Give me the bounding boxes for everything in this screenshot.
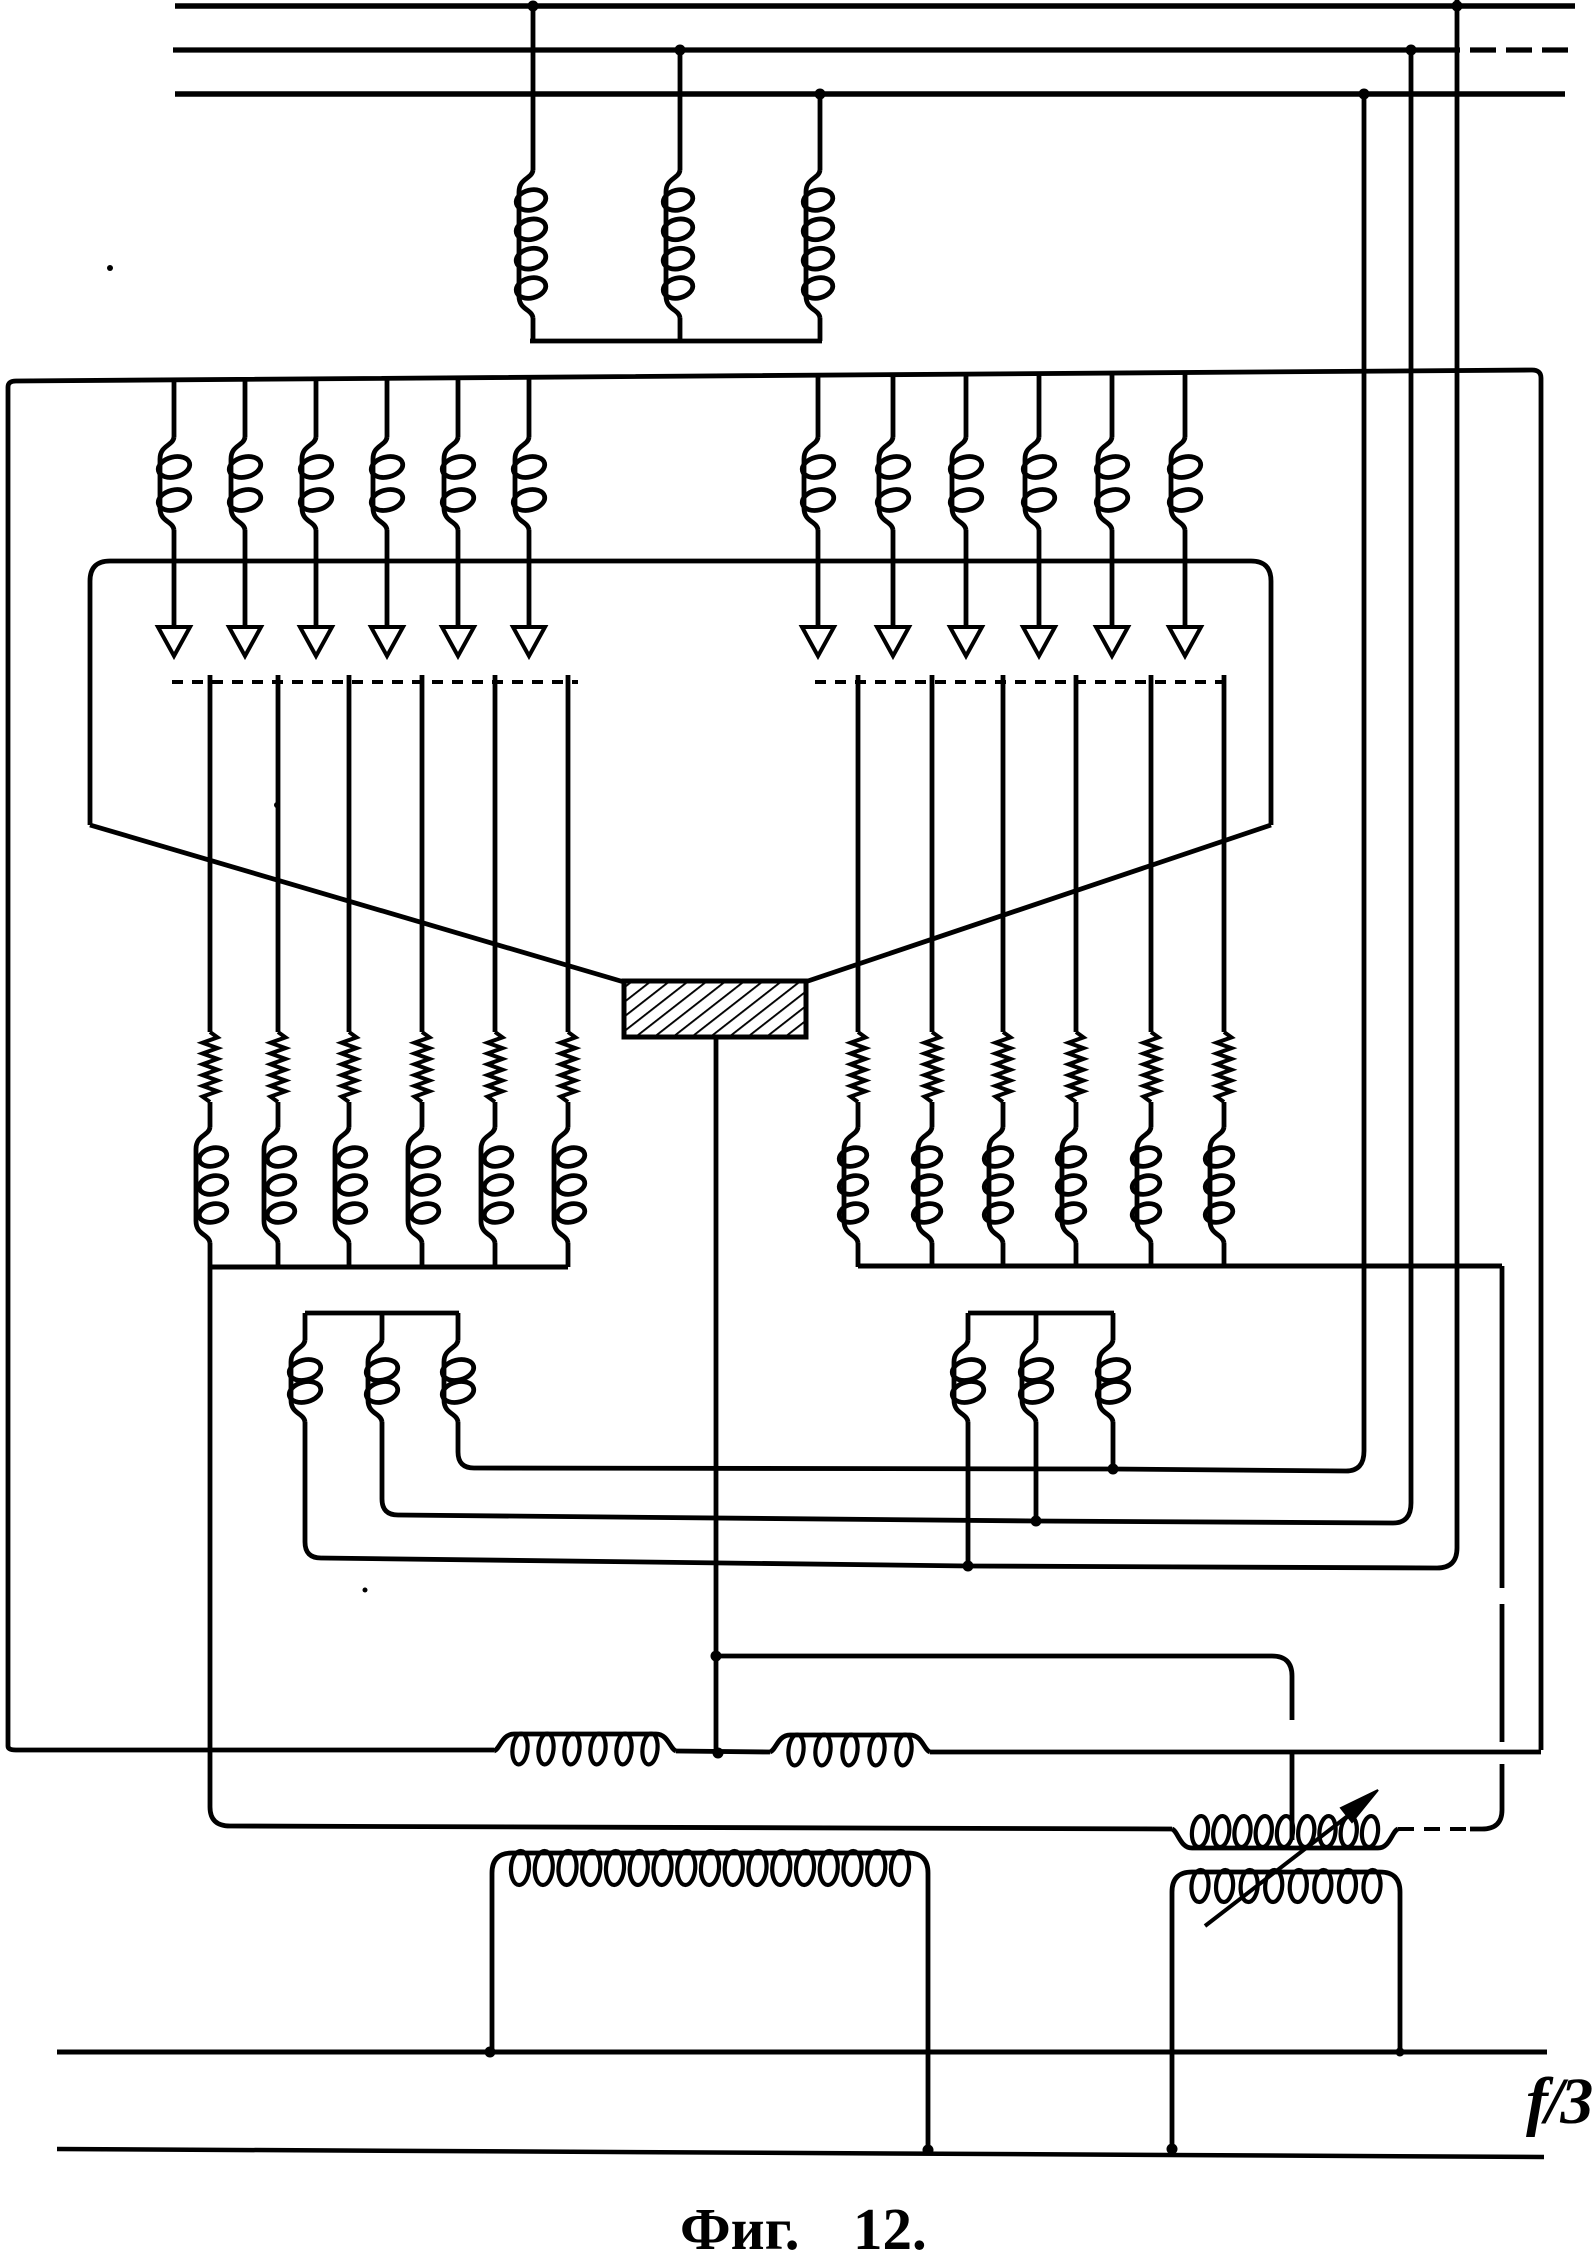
svg-text:f/3: f/3 [1526, 2065, 1592, 2138]
svg-text:Фиг.: Фиг. [680, 2196, 800, 2252]
svg-text:12.: 12. [853, 2196, 927, 2252]
